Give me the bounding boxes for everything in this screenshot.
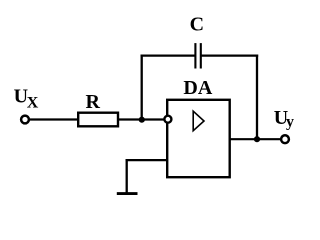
resistor R1	[78, 113, 118, 127]
label Ux	[14, 85, 39, 111]
op-amp U1 triangle symbol	[193, 111, 204, 131]
wire feedback top left segment	[141, 54, 196, 56]
node input junction	[139, 117, 145, 123]
wire input to resistor	[30, 118, 79, 120]
ground	[117, 192, 138, 195]
terminal Uy	[281, 135, 289, 143]
wire output	[230, 138, 281, 140]
svg-text:X: X	[27, 94, 39, 111]
terminal Ux	[21, 116, 29, 124]
wire feedback left vertical	[141, 56, 143, 120]
node output junction	[254, 136, 260, 142]
wire feedback top right segment	[201, 54, 258, 56]
wire resistor to op-amp input	[118, 118, 164, 120]
svg-text:DA: DA	[183, 77, 212, 99]
wire feedback right vertical	[256, 55, 258, 140]
wire ground vertical	[126, 159, 128, 194]
op-amp U1 inverting input bubble	[164, 116, 171, 123]
wire non-inverting input	[126, 159, 167, 161]
capacitor C1	[195, 43, 200, 68]
op-amp U1 box	[167, 100, 230, 177]
svg-text:y: y	[286, 114, 294, 131]
label Uy	[274, 107, 294, 131]
svg-text:R: R	[86, 91, 101, 113]
svg-text:C: C	[190, 14, 204, 36]
